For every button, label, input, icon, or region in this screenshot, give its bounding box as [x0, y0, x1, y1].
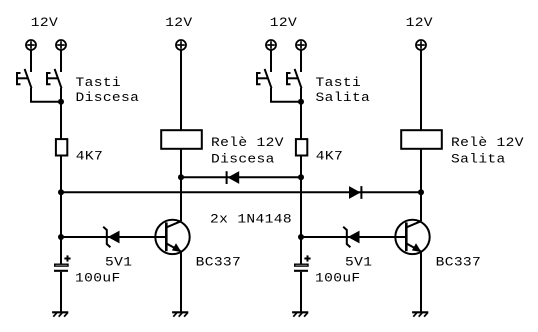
ground (left transistor emitter): [172, 312, 188, 316]
svg-text:Relè 12V: Relè 12V: [211, 136, 284, 151]
pushbutton SW3 (Tasti Salita a): [257, 69, 272, 88]
label BC337 (left): [196, 256, 242, 270]
svg-text:Discesa: Discesa: [211, 152, 275, 167]
junction right base node: [298, 234, 304, 240]
pushbutton SW4 (Tasti Salita b): [287, 69, 302, 88]
capacitor 100uF (left): [54, 255, 71, 270]
transistor Q1 BC337 (left): [155, 220, 189, 254]
svg-text:Salita: Salita: [451, 152, 506, 167]
wire SW4 bottom to resistor: [300, 88, 302, 139]
supply terminal +12V (left button 2): [56, 40, 66, 50]
wire capacitor to ground (right): [300, 272, 302, 312]
junction right buttons: [298, 99, 304, 105]
svg-text:BC337: BC337: [436, 256, 482, 270]
resistor 4K7 (left): [56, 139, 67, 155]
supply terminal +12V (right button 1): [266, 40, 276, 50]
svg-text:100uF: 100uF: [315, 272, 361, 286]
zener diode 5V1 (left): [103, 227, 119, 247]
relay coil Rele 12V Discesa: [161, 130, 202, 149]
wire base node to capacitor (right): [300, 237, 302, 264]
wire relay bottom to collector (left): [180, 149, 182, 221]
wire terminal to switch SW4: [300, 50, 302, 72]
junction right button node / bus A end: [298, 174, 304, 180]
wire left column down to base node: [60, 192, 62, 237]
wire terminal to switch SW3: [270, 50, 272, 72]
value label 4K7 (left): [76, 150, 103, 164]
net label 12V (left button pair supply): [31, 17, 59, 31]
zener diode 5V1 (right): [343, 227, 359, 247]
junction left column / cross bus B: [58, 189, 64, 195]
diode D1 1N4148 (cathode left): [227, 171, 240, 184]
value label 2x 1N4148: [210, 213, 292, 227]
svg-text:100uF: 100uF: [75, 272, 121, 286]
wire resistor to bus junction (left): [60, 156, 62, 193]
svg-text:Salita: Salita: [316, 91, 371, 106]
supply terminal +12V (left relay): [176, 40, 186, 50]
wire relay supply (right): [420, 50, 422, 130]
net label 12V (right button pair supply): [270, 17, 298, 31]
wire bus A (left relay node to right button node): [181, 176, 301, 178]
svg-text:Tasti: Tasti: [76, 76, 122, 91]
resistor 4K7 (right): [296, 139, 307, 155]
wire emitter to ground (right): [420, 252, 422, 313]
wire base node to capacitor (left): [60, 237, 62, 264]
wire terminal to switch SW2: [60, 50, 62, 72]
svg-text:12V: 12V: [270, 17, 298, 31]
transistor Q2 BC337 (right): [395, 220, 429, 254]
value label 100uF (left): [75, 272, 121, 286]
svg-text:Discesa: Discesa: [76, 91, 140, 106]
ground (left capacitor): [52, 312, 68, 316]
value label 5V1 (right): [345, 256, 372, 270]
wire resistor down crossing bus B (right): [300, 156, 302, 238]
wire relay bottom to collector (right): [420, 149, 422, 221]
label Rele 12V Salita: [451, 136, 524, 167]
svg-text:12V: 12V: [31, 17, 59, 31]
value label 4K7 (right): [316, 150, 343, 164]
junction left base node: [58, 234, 64, 240]
supply terminal +12V (right button 2): [296, 40, 306, 50]
wire capacitor to ground (left): [60, 272, 62, 312]
wire terminal to switch SW1: [30, 50, 32, 72]
value label 100uF (right): [315, 272, 361, 286]
wire SW3 bottom to junction: [271, 88, 301, 102]
label Tasti Discesa: [76, 76, 140, 106]
svg-text:2x 1N4148: 2x 1N4148: [210, 213, 292, 227]
value label 5V1 (left): [105, 256, 132, 270]
svg-text:4K7: 4K7: [76, 150, 103, 164]
wire SW2 bottom to resistor: [60, 88, 62, 139]
label BC337 (right): [436, 256, 482, 270]
junction right relay node / bus B end: [418, 189, 424, 195]
svg-text:Relè 12V: Relè 12V: [451, 136, 524, 151]
wire base node to transistor base (right): [301, 236, 406, 238]
capacitor 100uF (right): [294, 255, 311, 270]
supply terminal +12V (right relay): [416, 40, 426, 50]
label Tasti Salita: [316, 76, 371, 106]
svg-text:Tasti: Tasti: [316, 76, 362, 91]
supply terminal +12V (left button 1): [26, 40, 36, 50]
ground (right capacitor): [292, 312, 308, 316]
wire emitter to ground (left): [180, 252, 182, 313]
svg-text:BC337: BC337: [196, 256, 242, 270]
svg-text:5V1: 5V1: [105, 256, 132, 270]
wire base node to transistor base (left): [61, 236, 166, 238]
pushbutton SW2 (Tasti Discesa b): [47, 69, 62, 88]
net label 12V (right relay supply): [406, 17, 434, 31]
net label 12V (left relay supply): [165, 17, 193, 31]
svg-text:12V: 12V: [165, 17, 193, 31]
diode D2 1N4148 (cathode right): [349, 186, 361, 199]
wire bus B (left column to right relay node): [61, 191, 421, 193]
relay coil Rele 12V Salita: [401, 130, 442, 149]
junction left buttons: [58, 99, 64, 105]
wire SW1 bottom to junction: [31, 88, 61, 102]
svg-text:4K7: 4K7: [316, 150, 343, 164]
ground (right transistor emitter): [412, 312, 428, 316]
wire relay supply (left): [180, 50, 182, 130]
svg-text:5V1: 5V1: [345, 256, 372, 270]
junction left relay node / bus A: [178, 174, 184, 180]
label Rele 12V Discesa: [211, 136, 284, 167]
svg-text:12V: 12V: [406, 17, 434, 31]
pushbutton SW1 (Tasti Discesa a): [17, 69, 32, 88]
